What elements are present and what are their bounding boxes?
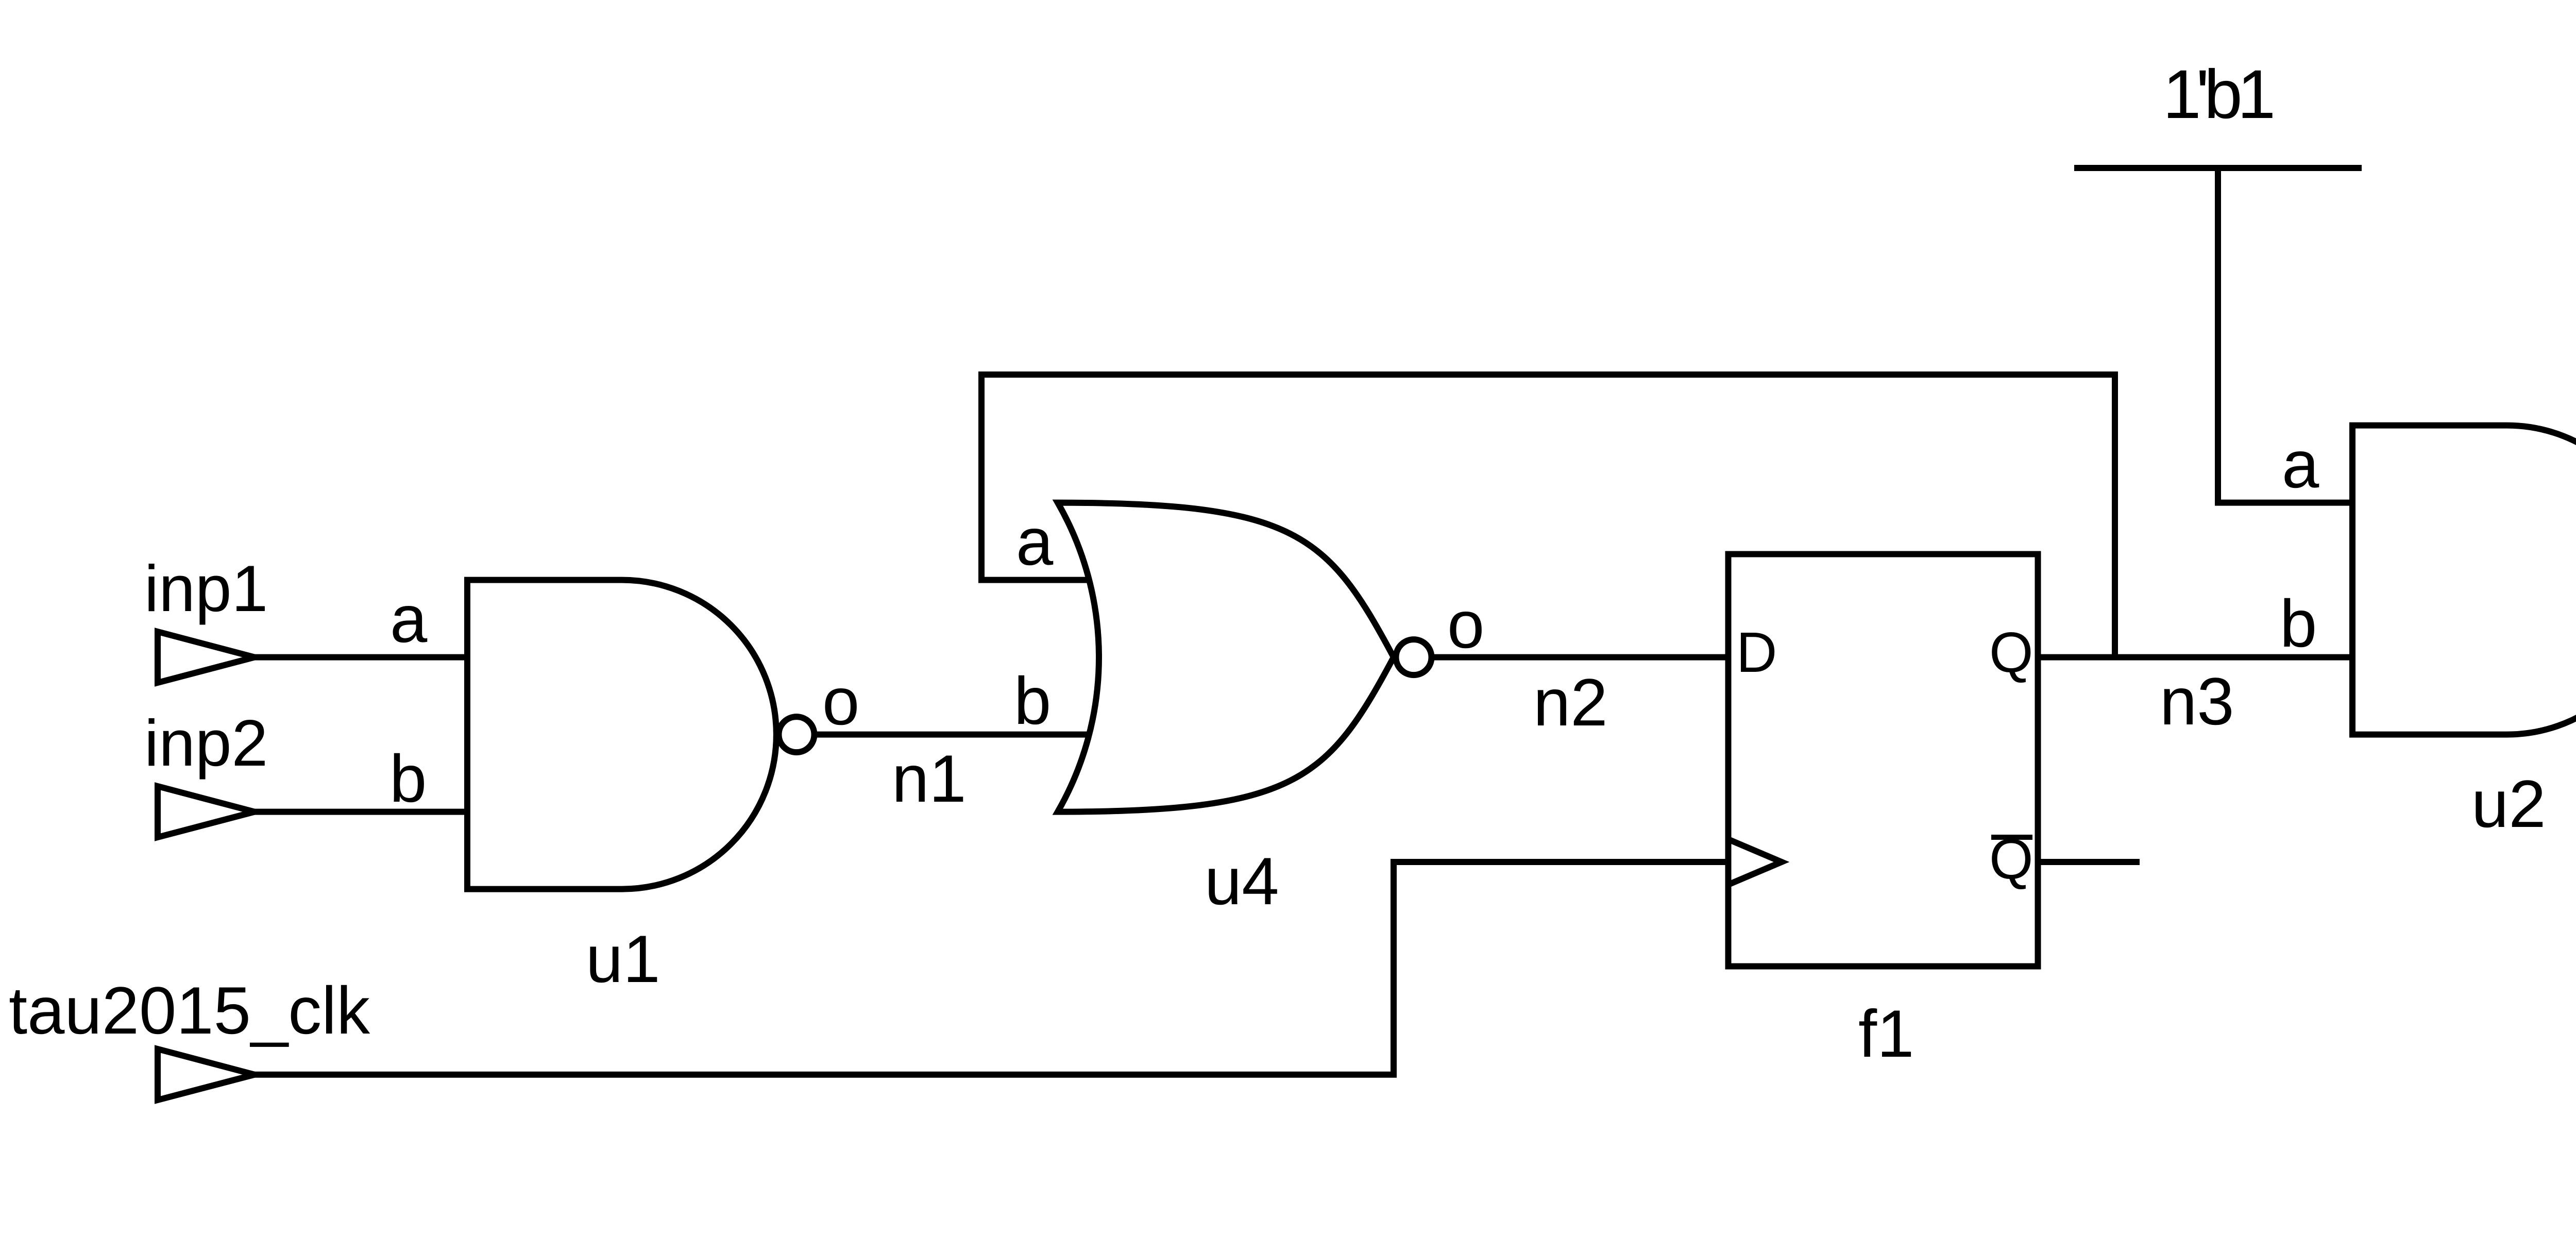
svg-text:u2: u2 bbox=[2471, 766, 2546, 841]
svg-text:a: a bbox=[390, 581, 428, 656]
svg-text:b: b bbox=[1014, 663, 1051, 738]
svg-text:Q: Q bbox=[1989, 827, 2033, 891]
svg-text:n2: n2 bbox=[1533, 665, 1608, 740]
svg-text:n1: n1 bbox=[892, 741, 967, 816]
svg-text:D: D bbox=[1736, 621, 1777, 684]
svg-text:u4: u4 bbox=[1205, 843, 1279, 919]
svg-text:b: b bbox=[389, 741, 427, 816]
svg-text:Q: Q bbox=[1989, 621, 2033, 684]
svg-text:f1: f1 bbox=[1858, 996, 1914, 1071]
svg-text:u1: u1 bbox=[586, 921, 660, 996]
svg-text:inp2: inp2 bbox=[144, 706, 268, 780]
svg-text:n3: n3 bbox=[2160, 664, 2234, 739]
svg-text:o: o bbox=[1447, 587, 1484, 662]
svg-text:a: a bbox=[1016, 504, 1054, 579]
svg-text:tau2015_clk: tau2015_clk bbox=[9, 973, 370, 1048]
svg-text:o: o bbox=[822, 664, 859, 739]
svg-text:b: b bbox=[2280, 586, 2317, 661]
svg-text:1'b1: 1'b1 bbox=[2163, 56, 2273, 133]
svg-text:inp1: inp1 bbox=[144, 552, 268, 625]
svg-text:a: a bbox=[2282, 427, 2319, 502]
